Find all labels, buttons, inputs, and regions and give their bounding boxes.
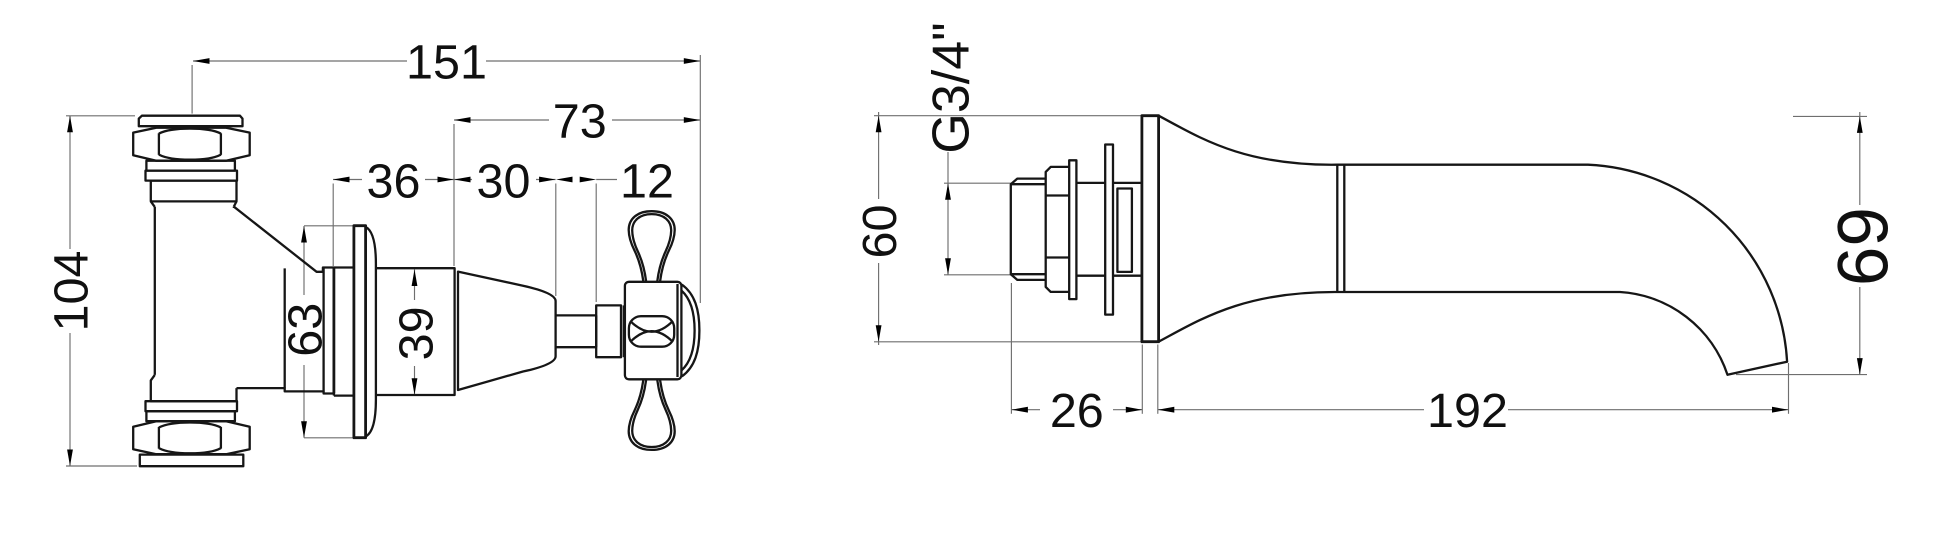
dimension 63 extension line top	[304, 225, 353, 227]
dimension 73 line	[454, 119, 700, 121]
svg-text:73: 73	[553, 95, 607, 149]
stem shank rectangle	[1117, 189, 1132, 272]
svg-text:104: 104	[44, 251, 98, 332]
dimension 26 arrows	[1011, 407, 1028, 413]
thread root lines	[1011, 184, 1046, 274]
flange skirt curve	[366, 227, 376, 437]
bottom hex nut facet arcs	[159, 422, 221, 453]
dimension 69 arrows	[1857, 116, 1863, 132]
dimension 192 extension line left	[1157, 345, 1159, 414]
dimension 36 line	[333, 179, 454, 181]
dimension 151 arrows	[193, 58, 210, 64]
top compression cap	[139, 116, 243, 127]
top hex nut facet lines	[159, 133, 221, 155]
dimension 60 extension line top	[874, 115, 1142, 117]
cover disc 2	[1105, 145, 1113, 315]
dimension 30 extension line	[555, 184, 557, 297]
handle front spoke boss	[629, 316, 674, 347]
svg-text:39: 39	[389, 306, 443, 360]
dimension 63 arrows	[301, 226, 307, 243]
stem behind disc 2	[1113, 183, 1142, 276]
handle top spoke	[629, 211, 675, 281]
dimension 104 extension line top	[66, 115, 135, 117]
handle top spoke inner line	[632, 214, 671, 281]
handle bottom spoke inner line	[632, 380, 671, 447]
dimension 60 line	[878, 112, 880, 345]
dimension 69 extension line bottom	[1736, 374, 1867, 376]
vertical pipe right edge upper	[233, 207, 235, 209]
dimension 192 line	[1158, 409, 1789, 411]
svg-text:36: 36	[367, 155, 421, 209]
threaded stem end	[1011, 179, 1046, 280]
valve body	[376, 268, 455, 395]
svg-text:12: 12	[620, 155, 674, 209]
dimension 104 extension line bottom	[66, 465, 137, 467]
dimension G3/4 line	[947, 152, 949, 275]
bonnet cone	[458, 272, 556, 390]
dimension 151 extension line left	[191, 65, 193, 114]
stem between discs	[1076, 183, 1105, 276]
dimension 60 arrows	[876, 116, 882, 133]
bottom hex nut facet lines	[159, 427, 221, 449]
svg-text:60: 60	[853, 205, 907, 259]
dimension 63 extension line bottom	[304, 437, 353, 439]
handle collar	[596, 305, 621, 357]
top ring 1	[146, 161, 235, 171]
dimension 69 extension line top	[1793, 115, 1867, 117]
dimension 39 arrows	[412, 270, 418, 287]
top wide tube	[151, 181, 237, 202]
dimension 151/73 extension line right	[699, 55, 701, 303]
handle hub	[625, 282, 682, 380]
bottom ring 1	[146, 411, 235, 421]
tee branch top diagonal	[234, 207, 354, 272]
spout body outline	[1159, 116, 1788, 375]
dimension 104 arrows	[67, 116, 73, 133]
dimension 60 extension line bottom	[874, 341, 1159, 343]
top tube chamfers	[151, 201, 237, 207]
sleeve left edge	[332, 268, 335, 394]
dimension 73 extension line left	[453, 124, 455, 266]
bottom ring 2	[146, 401, 238, 411]
locknut	[1046, 167, 1070, 292]
handle bottom spoke	[629, 380, 675, 450]
top ring 2	[146, 171, 238, 181]
dimension 26 line	[1011, 409, 1142, 411]
washer disc 1	[1069, 160, 1076, 299]
sleeve bottom edge	[334, 394, 354, 396]
handle hub inner line	[676, 284, 678, 377]
dimension 192 extension line right	[1788, 363, 1790, 414]
spout wall plate	[1142, 116, 1159, 342]
valve stem	[556, 315, 597, 347]
branch inner ring line	[284, 268, 286, 388]
handle front spoke waist arcs	[630, 321, 673, 342]
dimension 12 line stub	[596, 179, 617, 181]
locknut facet lines	[1046, 196, 1070, 258]
dimension 192 arrows	[1158, 407, 1175, 413]
bottom wide tube	[151, 375, 237, 401]
dimension 73 arrows	[454, 117, 471, 123]
top hex nut facet arcs	[159, 129, 221, 160]
dimension 39 line	[414, 270, 416, 395]
dimension 12 extension line	[595, 184, 597, 303]
spout seam lines	[1337, 165, 1344, 292]
dimension 12 arrows	[556, 177, 573, 183]
dimension 26 extension line right	[1141, 345, 1143, 414]
branch bell vertical	[322, 268, 324, 392]
svg-text:30: 30	[477, 155, 531, 209]
dimension G3/4 arrows	[945, 183, 951, 200]
dimension 30 arrows	[454, 177, 471, 183]
handle dome outer	[682, 285, 700, 377]
svg-text:151: 151	[406, 36, 487, 90]
dimension 36 arrows	[333, 177, 350, 183]
dimension 30 line	[454, 179, 556, 181]
dimension 104 line	[69, 116, 71, 466]
bottom hex nut	[133, 421, 250, 454]
svg-text:192: 192	[1427, 384, 1508, 438]
dimension G3/4 extension lines	[944, 183, 1011, 275]
svg-text:G3/4": G3/4"	[923, 22, 981, 153]
dimension 69 line	[1859, 112, 1861, 375]
handle dome inner	[681, 291, 694, 371]
dimension 36 extension line	[332, 184, 334, 267]
dimension 26 extension line left	[1010, 283, 1012, 414]
dimension 63 line	[303, 226, 305, 438]
vertical pipe left edge	[154, 207, 156, 375]
svg-text:26: 26	[1050, 384, 1104, 438]
bottom compression cap	[140, 455, 244, 467]
handle collar inner line	[623, 305, 625, 357]
wall flange plate	[354, 226, 366, 438]
dimension 151 line	[193, 60, 700, 62]
branch bottom staircase	[237, 388, 334, 396]
svg-text:69: 69	[1825, 207, 1904, 286]
top hex nut	[133, 128, 250, 161]
